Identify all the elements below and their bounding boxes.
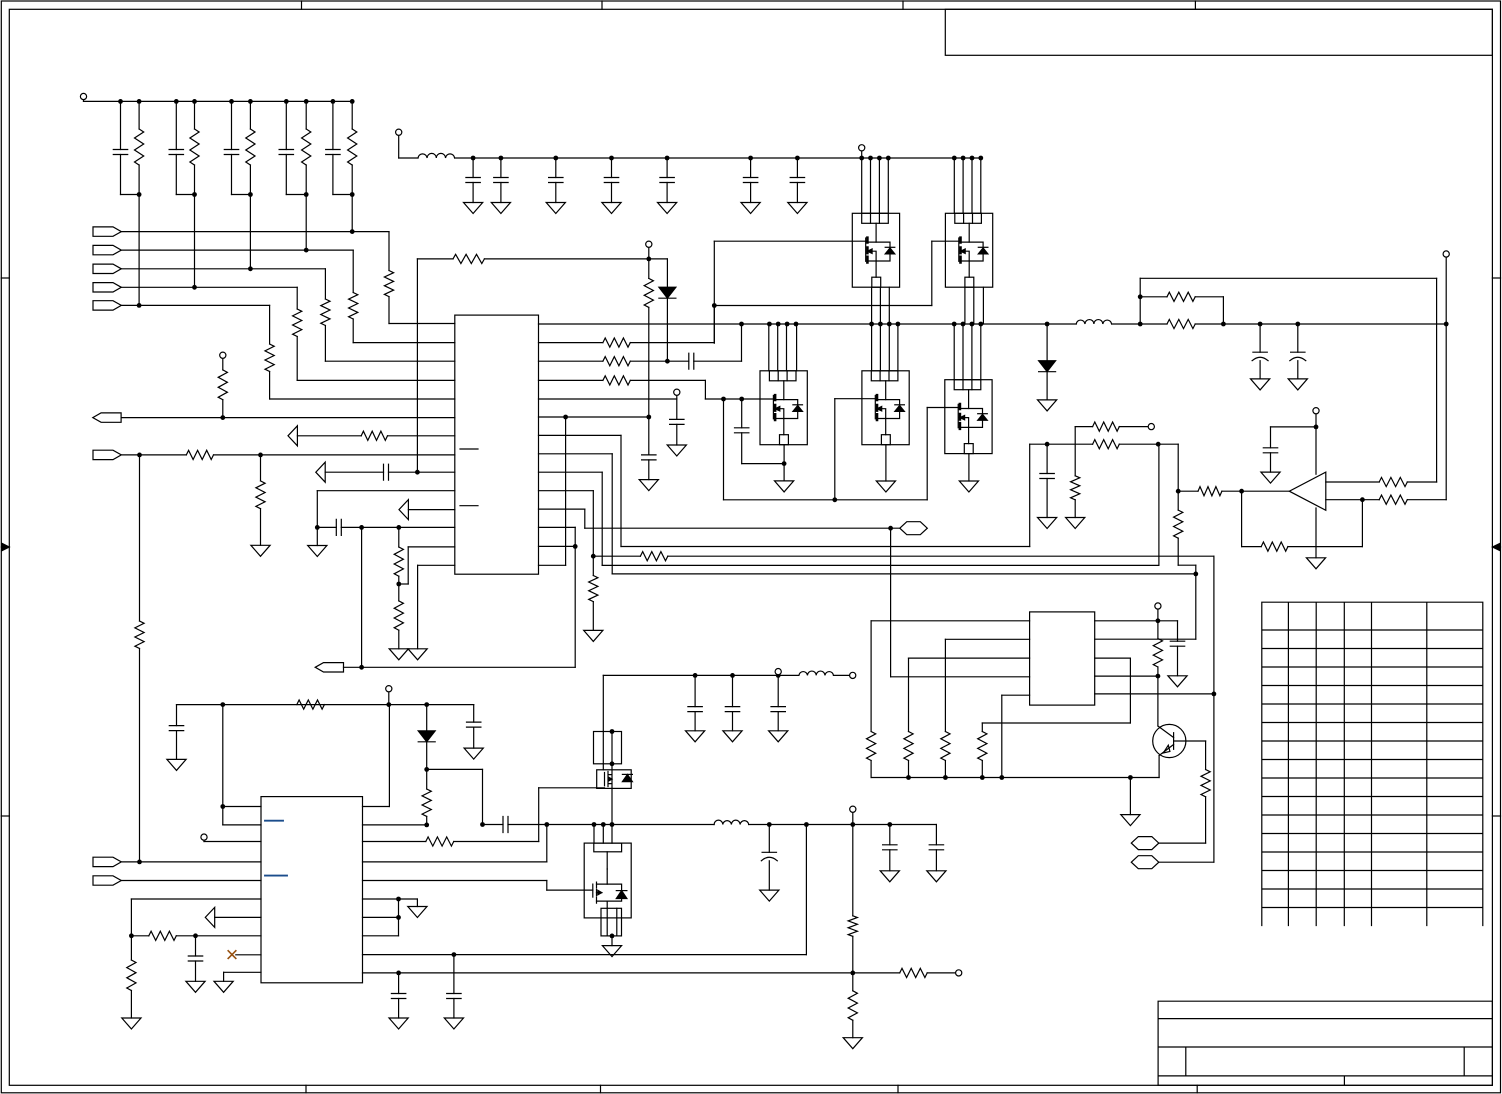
wire switch node — [508, 824, 714, 826]
ground — [464, 203, 483, 214]
resistor R25 — [256, 481, 265, 509]
wire — [980, 158, 982, 213]
resistor R44 — [900, 968, 928, 977]
wire — [871, 324, 873, 371]
U1 pin bar — [460, 448, 478, 450]
junction — [1156, 442, 1161, 447]
wire — [768, 825, 770, 853]
wire — [121, 304, 269, 306]
transistor Q2 drain tab — [955, 213, 982, 223]
junction — [415, 470, 420, 475]
resistor R8 — [321, 299, 330, 326]
junction — [471, 156, 476, 161]
Q7 body diode — [622, 774, 632, 781]
wire — [602, 732, 604, 764]
border tick right — [1492, 815, 1500, 817]
ground — [775, 481, 794, 492]
wire — [222, 705, 224, 825]
terminal J9 — [1443, 251, 1449, 257]
wire — [1119, 443, 1178, 445]
wire gate Q5 — [927, 407, 958, 409]
wire — [1297, 361, 1299, 379]
wire — [944, 761, 946, 778]
capacitor C14 — [689, 353, 694, 369]
wire pin R13 — [539, 545, 576, 547]
no-connect mark — [228, 951, 236, 959]
wire — [1271, 426, 1317, 428]
wire — [786, 324, 788, 371]
wire — [861, 151, 863, 158]
wire — [130, 991, 132, 1019]
junction — [174, 99, 179, 104]
junction — [610, 761, 615, 766]
transistor Q1 source lead — [875, 261, 877, 277]
wire — [713, 241, 715, 305]
wire pin R9 U4 — [363, 954, 807, 956]
resistor R42 — [426, 837, 454, 846]
transistor Q5 body diode — [978, 414, 988, 420]
junction — [887, 322, 892, 327]
junction — [499, 156, 504, 161]
junction — [952, 156, 957, 161]
wire — [611, 764, 613, 770]
wire — [750, 183, 752, 203]
ground — [959, 481, 978, 492]
border tick top — [902, 1, 904, 9]
junction — [906, 775, 911, 780]
capacitor C15 — [642, 455, 656, 460]
connector P7 — [93, 413, 121, 422]
Q7 gate bar — [604, 773, 606, 786]
ground — [876, 481, 895, 492]
wire — [398, 973, 400, 994]
transistor Q2 source tap — [961, 251, 970, 261]
transistor Q2 source lead — [968, 261, 970, 277]
wire — [398, 136, 400, 158]
wire — [120, 101, 122, 149]
wire — [297, 379, 455, 381]
ground — [723, 731, 742, 742]
wire — [324, 269, 326, 299]
junction — [943, 775, 948, 780]
junction — [350, 229, 355, 234]
wire — [388, 297, 390, 324]
Q7 arrow — [609, 777, 612, 781]
wire — [1157, 610, 1159, 621]
resistor R38 — [1379, 477, 1407, 486]
wire — [742, 463, 784, 465]
junction — [970, 322, 975, 327]
junction — [601, 822, 606, 827]
capacitor C2 — [169, 150, 183, 155]
capacitor C21 — [1252, 352, 1268, 361]
wire pin R2 U4 — [363, 824, 427, 826]
wire — [1046, 479, 1048, 518]
resistor R14 — [603, 357, 630, 366]
wire — [249, 101, 251, 129]
resistor R4 — [302, 129, 311, 165]
ground — [602, 203, 621, 214]
junction — [1156, 674, 1161, 679]
terminal J14 — [850, 806, 856, 812]
ground — [760, 890, 779, 901]
table grid — [1262, 602, 1483, 925]
wire — [121, 880, 261, 882]
resistor R2 — [190, 129, 199, 165]
wire — [980, 324, 982, 380]
wire — [852, 813, 854, 825]
junction — [359, 525, 364, 530]
junction — [970, 156, 975, 161]
wire — [1407, 499, 1446, 501]
connector P10 — [93, 876, 121, 885]
wire pin L1 U4 — [223, 806, 261, 808]
wire — [317, 490, 455, 492]
wire — [713, 306, 715, 344]
junction — [850, 822, 855, 827]
wire — [1213, 556, 1215, 694]
wire — [454, 841, 539, 843]
border tick right — [1492, 277, 1500, 279]
wire — [889, 850, 891, 871]
transistor Q3 body — [760, 371, 807, 445]
ground — [389, 649, 408, 660]
ground — [251, 545, 270, 556]
wire — [1139, 278, 1141, 324]
capacitor C11 — [743, 178, 757, 183]
transistor Q5 diode lead — [969, 420, 983, 427]
wire — [611, 454, 613, 574]
wire — [871, 287, 873, 324]
wire — [982, 287, 984, 324]
junction — [739, 397, 744, 402]
resistor R20 — [640, 552, 667, 561]
junction — [284, 99, 289, 104]
wire — [973, 287, 975, 324]
Q7 drain tab — [594, 732, 622, 764]
resistor R47 — [127, 960, 136, 991]
wire — [305, 195, 307, 251]
wire — [176, 731, 178, 760]
wire — [574, 527, 576, 667]
wire — [341, 526, 455, 528]
transistor Q1 diode bar — [885, 246, 895, 248]
transistor Q2 diode lead — [969, 254, 983, 261]
wire — [539, 453, 613, 455]
wire — [723, 399, 725, 500]
wire — [908, 658, 910, 731]
capacitor C20 — [1263, 448, 1277, 453]
terminal J1 — [80, 93, 86, 99]
transistor Q3 tab wires — [778, 371, 787, 381]
wire — [648, 417, 650, 455]
wire — [388, 692, 390, 704]
wire — [694, 360, 742, 362]
resistor R32 — [1153, 639, 1162, 668]
wire — [1361, 500, 1363, 547]
transistor Q5 body — [945, 380, 992, 454]
wire — [399, 583, 408, 585]
wire — [592, 556, 594, 575]
resistor R27 — [394, 601, 403, 630]
resistor R36 — [1261, 542, 1288, 551]
wire — [539, 490, 594, 492]
wire — [195, 936, 197, 956]
junction — [665, 156, 670, 161]
wire gate Q1 — [714, 240, 866, 242]
transistor Q4 drain tab — [871, 371, 898, 381]
wire — [926, 408, 928, 500]
resistor R22 — [218, 370, 227, 400]
junction — [785, 322, 790, 327]
wire — [1270, 427, 1272, 448]
wire — [231, 155, 233, 195]
wire gate Q7 — [539, 787, 605, 789]
wire — [649, 258, 668, 260]
capacitor C9 — [604, 178, 618, 183]
junction — [563, 415, 568, 420]
wire — [601, 472, 603, 565]
resistor R13 — [603, 338, 630, 347]
wire — [611, 158, 613, 178]
junction — [350, 192, 355, 197]
junction — [220, 804, 225, 809]
transistor Q5 diode bar — [978, 413, 988, 415]
wire — [852, 1020, 854, 1037]
wire gate Q3 — [705, 398, 773, 400]
resistor R45 — [848, 991, 857, 1021]
wire — [1297, 324, 1299, 352]
arrow marker A4 — [205, 907, 214, 927]
wire pin R4 U4 — [363, 861, 547, 863]
junction — [1045, 442, 1050, 447]
wire — [648, 259, 650, 279]
junction — [137, 453, 142, 458]
wire — [121, 861, 261, 863]
wire — [1436, 278, 1438, 482]
Q8 diode link — [607, 884, 621, 901]
junction — [721, 397, 726, 402]
transistor Q1 source tap — [867, 251, 876, 261]
capacitor C33 — [391, 994, 405, 999]
wire — [121, 268, 325, 270]
ground — [408, 907, 427, 918]
wire bus B — [668, 555, 1214, 557]
junction — [712, 303, 717, 308]
transistor Q4 drain lead — [885, 381, 887, 400]
wire — [1129, 778, 1131, 815]
wire — [648, 248, 650, 259]
Q8 arrow — [598, 890, 602, 895]
wire — [962, 158, 964, 213]
wire — [332, 101, 334, 149]
wire — [138, 101, 140, 129]
junction — [331, 99, 336, 104]
wire — [215, 916, 261, 918]
wire — [399, 157, 418, 159]
wire — [584, 509, 586, 528]
transistor Q5 drain tap — [960, 409, 983, 414]
transistor Q4 channel bar — [876, 395, 879, 420]
junction — [1360, 497, 1365, 502]
wire — [1158, 756, 1160, 778]
junction — [886, 156, 891, 161]
ground — [1121, 815, 1140, 826]
wire pin R8 U4 — [363, 935, 399, 937]
wire — [539, 416, 650, 418]
ground — [1251, 379, 1270, 390]
junction — [804, 822, 809, 827]
wire — [616, 908, 618, 936]
wire — [222, 400, 224, 418]
capacitor C24 — [467, 722, 481, 727]
junction — [610, 729, 615, 734]
resistor R23 — [361, 431, 387, 440]
wire — [592, 602, 594, 631]
wire — [388, 435, 455, 437]
ground — [1038, 400, 1057, 411]
transistor Q3 drain tab — [769, 371, 796, 381]
wire — [602, 825, 604, 844]
terminal J13 — [775, 669, 781, 675]
ground — [1038, 518, 1057, 529]
wire — [805, 825, 807, 955]
wire — [888, 287, 890, 324]
wire — [1140, 296, 1167, 298]
wire — [175, 155, 177, 195]
wire pin L9 U4 — [236, 954, 261, 956]
wire — [968, 454, 970, 481]
junction — [137, 303, 142, 308]
wire pin L14 — [418, 564, 455, 566]
terminal J10 — [1313, 408, 1319, 414]
transistor Q3 diode lead — [784, 411, 798, 418]
wire — [472, 158, 474, 178]
junction — [304, 248, 309, 253]
terminal J6 — [1148, 424, 1154, 430]
inductor L2 — [1076, 320, 1111, 324]
transistor Q2 source tab — [965, 277, 974, 287]
wire — [834, 674, 850, 676]
wire — [351, 195, 353, 232]
wire — [426, 816, 428, 825]
wire rail — [871, 777, 1159, 779]
wire — [879, 324, 881, 371]
wire — [195, 961, 197, 981]
terminal J3 — [859, 145, 865, 151]
junction — [192, 99, 197, 104]
transistor Q5 channel bar — [959, 404, 962, 429]
terminal J8 — [1155, 603, 1161, 609]
wire — [964, 287, 966, 324]
capacitor C35 — [670, 419, 684, 424]
resistor R15 — [453, 254, 484, 263]
wire — [260, 455, 262, 481]
ground — [1168, 676, 1187, 687]
net tag N1 — [1131, 837, 1159, 850]
junction — [359, 665, 364, 670]
wire — [1288, 546, 1363, 548]
wire — [732, 712, 734, 731]
ground — [186, 981, 205, 992]
junction — [258, 453, 263, 458]
Q8 gate bar — [592, 884, 594, 897]
resistor R12 — [603, 376, 630, 385]
capacitor C26 — [725, 707, 739, 712]
wire pin R7 U4 — [363, 916, 399, 918]
junction — [776, 673, 781, 678]
wire — [408, 509, 454, 511]
wire — [593, 555, 640, 557]
net tag N3 — [900, 522, 928, 535]
wire — [944, 639, 946, 731]
wire — [879, 287, 881, 324]
wire — [749, 824, 937, 826]
wire — [1030, 443, 1093, 445]
junction — [1138, 294, 1143, 299]
wire — [1270, 453, 1272, 472]
wire — [453, 955, 455, 994]
border tick bottom — [897, 1085, 899, 1093]
wire — [1241, 491, 1243, 546]
inductor L3 — [799, 671, 834, 675]
wire — [285, 155, 287, 195]
junction — [961, 322, 966, 327]
junction — [646, 257, 651, 262]
wire — [539, 360, 603, 362]
wire — [426, 705, 428, 731]
resistor R19 — [1071, 476, 1080, 500]
wire — [871, 620, 1030, 622]
capacitor C34 — [188, 956, 202, 961]
resistor R30 — [904, 732, 913, 761]
junction — [952, 322, 957, 327]
wire — [176, 935, 261, 937]
wire — [214, 454, 455, 456]
resistor R39 — [1167, 292, 1195, 301]
wire bus E — [585, 527, 900, 529]
ground — [686, 731, 705, 742]
junction — [1176, 489, 1181, 494]
wire — [1315, 508, 1317, 558]
resistor R17 — [1093, 440, 1120, 449]
wire gate Q4 — [835, 398, 876, 400]
Q8 body diode — [616, 891, 627, 899]
wire pin R2 — [1095, 638, 1196, 640]
capacitor C16 — [1040, 474, 1054, 479]
transistor Q4 body diode — [895, 405, 905, 411]
transistor Q4 source arrow — [877, 407, 882, 411]
wire — [203, 840, 205, 843]
terminal J5 — [674, 389, 680, 395]
capacitor C27 — [771, 707, 785, 712]
diode D2 — [1039, 361, 1056, 372]
wire — [130, 936, 132, 960]
junction — [1295, 322, 1300, 327]
wire — [539, 434, 622, 436]
resistor R3 — [246, 129, 255, 165]
wire pin R4 — [1095, 675, 1158, 677]
transistor Q2 body diode — [978, 248, 988, 254]
wire — [945, 638, 1029, 640]
junction — [1239, 489, 1244, 494]
revision box top right — [945, 9, 1492, 55]
wire mid rail — [1195, 323, 1446, 325]
junction — [1138, 322, 1143, 327]
junction — [776, 322, 781, 327]
transistor Q4 gate bar — [874, 396, 876, 419]
wire pin L13 — [408, 546, 455, 548]
